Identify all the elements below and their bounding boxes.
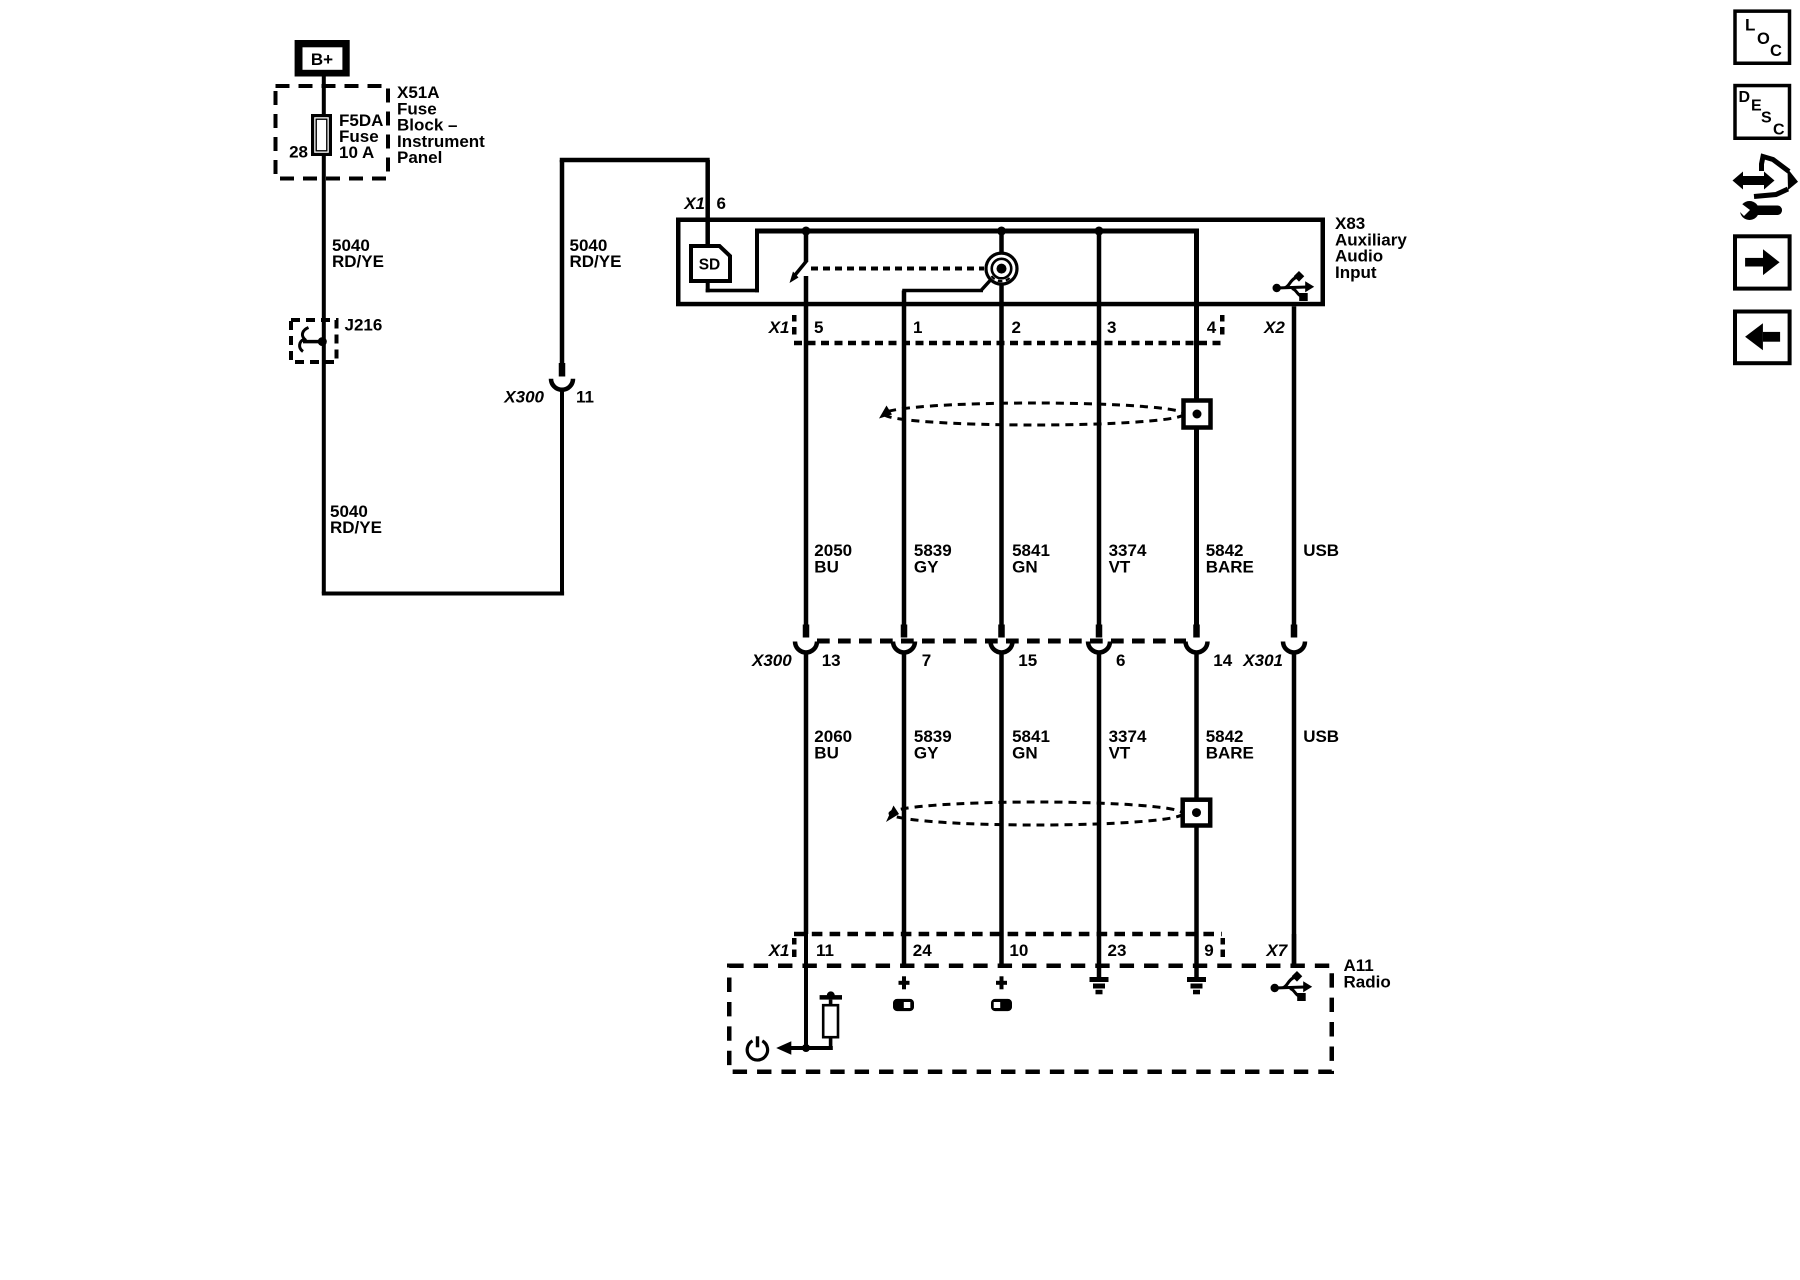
svg-text:1: 1 bbox=[913, 318, 922, 337]
svg-text:11: 11 bbox=[816, 941, 834, 960]
svg-text:3: 3 bbox=[1107, 318, 1116, 337]
svg-text:C: C bbox=[1773, 122, 1785, 139]
svg-text:B+: B+ bbox=[311, 50, 333, 69]
svg-text:C: C bbox=[1770, 42, 1782, 60]
svg-text:GN: GN bbox=[1012, 743, 1038, 762]
svg-text:6: 6 bbox=[1116, 651, 1125, 670]
svg-text:24: 24 bbox=[913, 941, 932, 960]
svg-text:28: 28 bbox=[289, 143, 308, 162]
svg-text:10 A: 10 A bbox=[339, 143, 374, 162]
svg-text:J216: J216 bbox=[345, 316, 383, 335]
svg-text:X300: X300 bbox=[503, 388, 544, 407]
svg-text:X7: X7 bbox=[1265, 941, 1288, 960]
svg-text:X1: X1 bbox=[683, 194, 705, 213]
svg-text:X301: X301 bbox=[1242, 651, 1283, 670]
svg-text:2: 2 bbox=[1012, 318, 1021, 337]
svg-text:USB: USB bbox=[1303, 541, 1339, 560]
svg-text:4: 4 bbox=[1207, 318, 1217, 337]
svg-text:Radio: Radio bbox=[1344, 972, 1391, 991]
svg-text:O: O bbox=[1757, 30, 1770, 48]
svg-text:9: 9 bbox=[1204, 941, 1213, 960]
svg-text:VT: VT bbox=[1109, 557, 1131, 576]
svg-text:GY: GY bbox=[914, 557, 939, 576]
svg-text:X2: X2 bbox=[1263, 318, 1285, 337]
svg-text:RD/YE: RD/YE bbox=[332, 252, 384, 271]
svg-text:6: 6 bbox=[717, 194, 726, 213]
svg-text:23: 23 bbox=[1108, 941, 1127, 960]
svg-text:BU: BU bbox=[814, 557, 839, 576]
svg-text:BARE: BARE bbox=[1206, 743, 1254, 762]
svg-text:10: 10 bbox=[1009, 941, 1028, 960]
svg-text:USB: USB bbox=[1303, 727, 1339, 746]
svg-text:D: D bbox=[1739, 89, 1751, 106]
svg-text:RD/YE: RD/YE bbox=[330, 518, 382, 537]
svg-text:X1: X1 bbox=[768, 318, 790, 337]
svg-text:7: 7 bbox=[922, 651, 931, 670]
svg-text:11: 11 bbox=[576, 388, 594, 407]
svg-text:BARE: BARE bbox=[1206, 557, 1254, 576]
svg-text:15: 15 bbox=[1018, 651, 1037, 670]
svg-text:SD: SD bbox=[699, 257, 721, 274]
svg-text:RD/YE: RD/YE bbox=[570, 252, 622, 271]
svg-text:L: L bbox=[1745, 16, 1755, 35]
svg-text:Panel: Panel bbox=[397, 148, 442, 167]
svg-text:S: S bbox=[1761, 110, 1772, 127]
svg-text:13: 13 bbox=[822, 651, 841, 670]
svg-text:BU: BU bbox=[814, 743, 839, 762]
svg-text:Input: Input bbox=[1335, 263, 1377, 282]
svg-text:X1: X1 bbox=[768, 941, 790, 960]
svg-text:14: 14 bbox=[1213, 651, 1232, 670]
svg-text:5: 5 bbox=[814, 318, 823, 337]
svg-text:GY: GY bbox=[914, 743, 939, 762]
svg-text:VT: VT bbox=[1109, 743, 1131, 762]
svg-text:GN: GN bbox=[1012, 557, 1038, 576]
svg-text:X300: X300 bbox=[751, 651, 792, 670]
